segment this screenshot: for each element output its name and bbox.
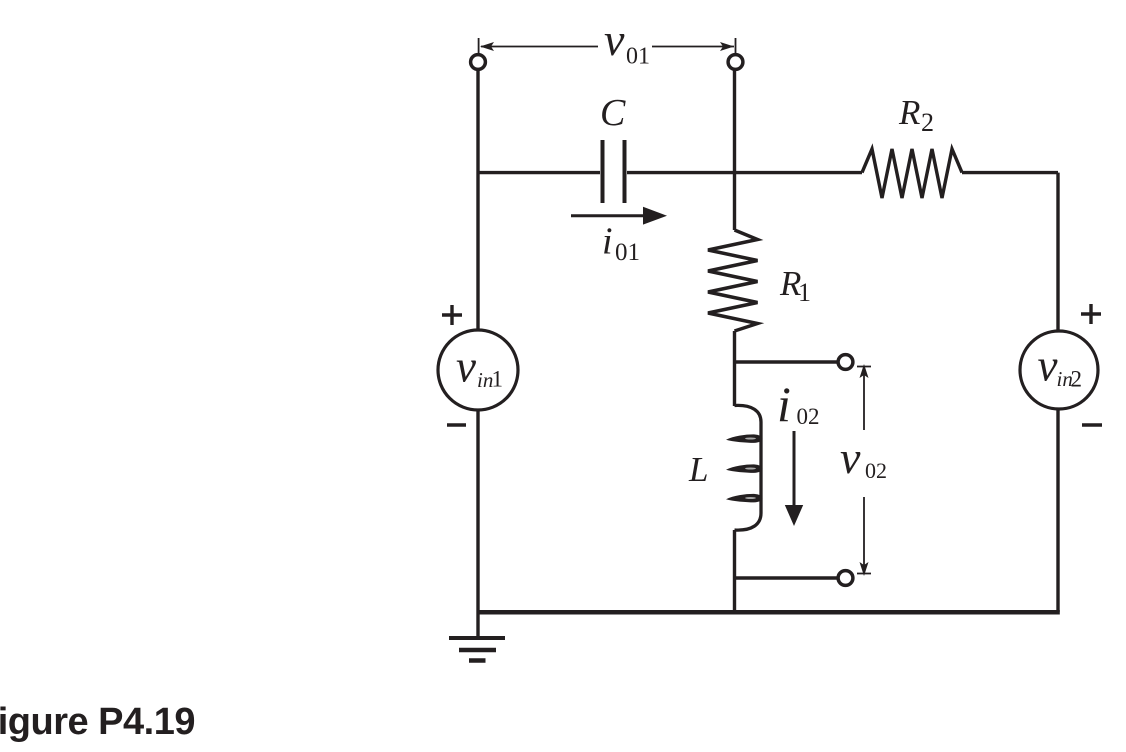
svg-text:1: 1	[492, 367, 504, 392]
svg-text:2: 2	[921, 108, 934, 137]
svg-text:i: i	[777, 376, 791, 432]
svg-text:2: 2	[1071, 366, 1083, 391]
svg-text:v: v	[840, 432, 861, 483]
svg-text:01: 01	[615, 239, 640, 266]
svg-text:C: C	[600, 92, 626, 134]
svg-text:02: 02	[797, 404, 820, 429]
svg-text:L: L	[688, 450, 708, 489]
svg-text:1: 1	[798, 278, 811, 307]
svg-text:v: v	[456, 342, 476, 392]
svg-text:R: R	[898, 93, 920, 132]
svg-text:i: i	[602, 221, 613, 263]
svg-text:01: 01	[626, 44, 650, 70]
svg-text:02: 02	[865, 458, 887, 483]
svg-text:v: v	[1038, 341, 1058, 391]
svg-text:v: v	[604, 14, 625, 65]
svg-text:Figure P4.19: Figure P4.19	[0, 701, 195, 743]
